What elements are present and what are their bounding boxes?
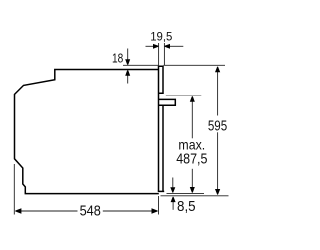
svg-text:487,5: 487,5 bbox=[176, 151, 207, 167]
svg-text:595: 595 bbox=[208, 117, 227, 134]
svg-text:8,5: 8,5 bbox=[177, 197, 196, 214]
svg-text:18: 18 bbox=[112, 51, 123, 65]
svg-text:548: 548 bbox=[80, 203, 101, 219]
svg-text:19,5: 19,5 bbox=[150, 30, 173, 43]
